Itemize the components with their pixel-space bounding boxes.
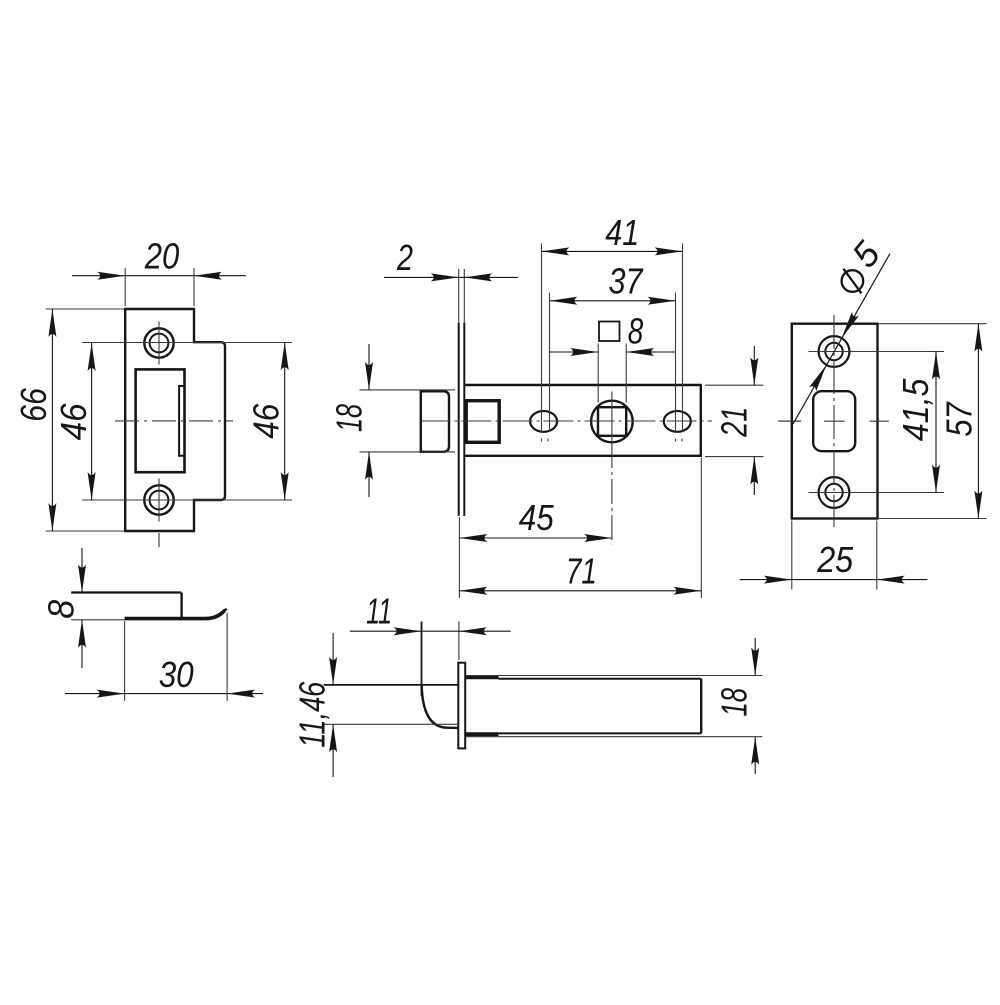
screw hole top outer xyxy=(144,328,173,357)
diameter symbol circle xyxy=(842,270,864,292)
dim 18 extension bottom xyxy=(466,736,762,738)
dim 45 extension left xyxy=(458,517,460,598)
dim 8 square extension right xyxy=(625,344,627,403)
svg-text:20: 20 xyxy=(144,236,179,277)
center line horizontal top screws xyxy=(82,342,292,344)
dim 20 extension right xyxy=(193,268,195,306)
svg-text:71: 71 xyxy=(566,550,597,591)
latch bolt head xyxy=(421,391,449,452)
svg-text:18: 18 xyxy=(329,404,370,432)
svg-text:11,46: 11,46 xyxy=(292,681,333,748)
faceplate screw bottom inner xyxy=(825,484,842,501)
dim 21 extension top xyxy=(705,384,763,386)
faceplate screw top outer xyxy=(819,336,850,367)
dim 41 extension right xyxy=(682,244,684,432)
leader arrow upper xyxy=(842,254,890,339)
screw hole top inner xyxy=(150,334,169,353)
screw hole bottom outer xyxy=(144,485,173,514)
dim 71 line xyxy=(459,590,701,592)
bolt tail bottom edge xyxy=(499,732,702,734)
slot lip xyxy=(179,386,184,456)
svg-text:8: 8 xyxy=(628,311,644,352)
svg-text:45: 45 xyxy=(519,497,555,538)
dim 18 side line xyxy=(754,638,756,676)
dim 2 extension left xyxy=(458,269,460,323)
svg-text:57: 57 xyxy=(939,401,980,437)
center line horizontal top screw xyxy=(809,351,945,353)
dim 37 extension right xyxy=(675,293,677,432)
spindle square xyxy=(598,407,626,436)
axis dash between views xyxy=(778,420,801,422)
dim 30 extension right xyxy=(226,613,228,701)
dim 18 line xyxy=(368,344,370,390)
dim 18 extension top xyxy=(360,389,456,391)
faceplate bar xyxy=(458,663,465,749)
dim 71 extension right xyxy=(700,458,702,598)
profile top flange xyxy=(71,591,181,593)
dim 37 line xyxy=(550,300,676,302)
dim 41,5 line xyxy=(935,352,937,493)
dim 2 extension right xyxy=(463,269,465,323)
svg-text:46: 46 xyxy=(53,402,94,440)
spindle vertical center line xyxy=(611,392,613,444)
main axis center line xyxy=(421,420,713,422)
dim 21 extension bottom xyxy=(705,456,763,458)
bolt tail xyxy=(466,401,499,443)
dim 25 extension left xyxy=(791,521,793,590)
latch window xyxy=(813,391,855,451)
dim 8 square line xyxy=(549,351,598,353)
center line vertical xyxy=(833,315,835,527)
svg-text:66: 66 xyxy=(13,387,54,421)
profile bend edge xyxy=(180,593,182,619)
center line vertical through top screw xyxy=(158,322,160,365)
dim 45 line xyxy=(459,537,612,539)
screw post left xyxy=(530,411,557,432)
dim 2 line xyxy=(384,276,518,278)
svg-text:8: 8 xyxy=(41,600,82,619)
svg-text:25: 25 xyxy=(816,539,854,580)
dim 37 extension left xyxy=(549,293,551,432)
svg-text:37: 37 xyxy=(609,260,645,301)
faceplate edge right line xyxy=(463,323,465,516)
dim 8 line xyxy=(81,548,83,593)
dim 20 line xyxy=(72,275,125,277)
svg-text:41: 41 xyxy=(605,212,639,253)
center line horizontal bottom screws xyxy=(82,499,292,501)
dim 66 line xyxy=(51,309,53,531)
dim 25 extension right xyxy=(876,521,878,590)
dim 11,46 line xyxy=(332,633,334,685)
dim 41 line xyxy=(542,250,683,252)
dim 25 line xyxy=(740,579,792,581)
spindle circle xyxy=(591,401,633,443)
dim 57 extension top xyxy=(878,323,987,325)
svg-text:46: 46 xyxy=(245,403,286,439)
profile bottom plate with lip xyxy=(125,610,227,618)
screw hole bottom inner xyxy=(150,491,169,510)
center line plate middle xyxy=(115,420,233,422)
strike plate outline xyxy=(125,309,225,531)
dim 11 extension left xyxy=(421,622,423,697)
faceplate outline xyxy=(792,324,878,519)
svg-text:41,5: 41,5 xyxy=(895,378,936,442)
svg-text:11: 11 xyxy=(366,591,392,632)
latch body outline xyxy=(464,385,701,456)
faceplate edge left line xyxy=(458,323,460,516)
dim 41 extension left xyxy=(541,244,543,432)
extension dots below posts xyxy=(541,439,543,442)
center line vertical through bottom screw xyxy=(158,479,160,522)
dim 46 right line xyxy=(284,342,286,500)
latch slot xyxy=(136,369,185,472)
dim 21 line xyxy=(753,346,755,385)
bolt head top edge xyxy=(465,675,498,679)
diameter leader line xyxy=(793,254,890,425)
svg-text:21: 21 xyxy=(713,407,754,438)
dim 30 line xyxy=(65,693,125,695)
bolt bevel curve xyxy=(422,685,459,728)
dim 11,46 boundary top xyxy=(324,684,459,686)
dim 11 extension right xyxy=(458,622,460,661)
leader arrow lower xyxy=(793,365,826,424)
center line middle dashes xyxy=(780,420,802,422)
dim 57 extension bottom xyxy=(878,518,987,520)
dim 8 extension bottom xyxy=(71,619,124,621)
dim 8 square extension left xyxy=(597,344,599,403)
dim 18 extension top xyxy=(466,675,762,677)
screw post right xyxy=(664,411,691,432)
svg-text:2: 2 xyxy=(396,237,413,278)
dim 66 extension bottom xyxy=(46,530,126,532)
center line horizontal bottom screw xyxy=(809,492,945,494)
dim 46 left line xyxy=(91,343,93,500)
dim 57 line xyxy=(977,324,979,519)
center line below plate xyxy=(158,533,160,547)
dim 66 extension top xyxy=(46,308,126,310)
bolt head bottom edge xyxy=(465,732,498,736)
dim 11,46 boundary bottom xyxy=(324,723,459,725)
bolt tail right edge xyxy=(700,679,702,734)
svg-text:30: 30 xyxy=(159,654,194,695)
dim 30 extension left xyxy=(124,621,126,701)
faceplate screw bottom outer xyxy=(819,477,850,508)
dim 20 extension left xyxy=(124,268,126,306)
square symbol xyxy=(599,322,620,342)
svg-text:18: 18 xyxy=(714,688,755,717)
dim 18 extension bottom xyxy=(360,451,456,453)
diameter symbol slash xyxy=(843,269,861,294)
bolt tail top edge xyxy=(499,678,702,680)
dim 11 line xyxy=(422,630,459,632)
faceplate screw top inner xyxy=(825,343,842,360)
